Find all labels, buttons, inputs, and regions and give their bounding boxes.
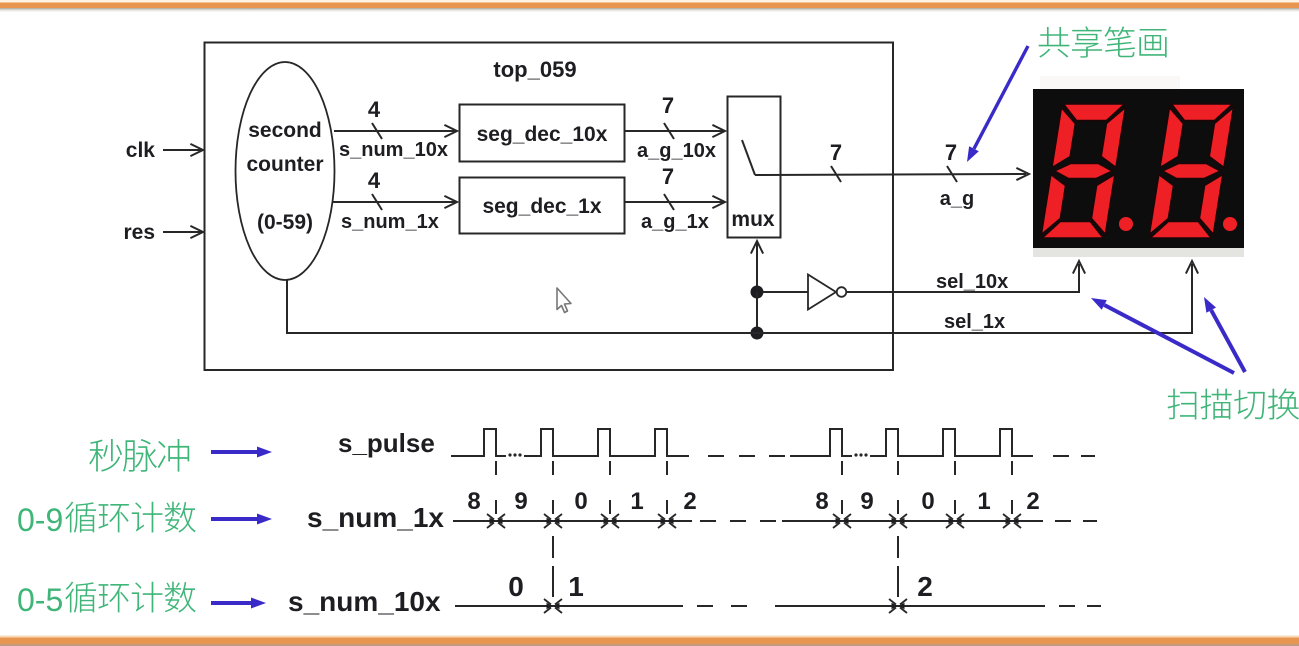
blue arrow to s_pulse [211,450,257,454]
svg-text:top_059: top_059 [493,57,576,82]
svg-text:sel_10x: sel_10x [936,271,1008,293]
decoder seg_dec_1x [460,178,625,234]
wire from counter bottom (sel_1x) [287,280,757,333]
waveform s_num_10x [455,605,1045,607]
svg-text:1: 1 [630,488,643,515]
wire sel_1x [757,264,1192,333]
svg-text:a_g: a_g [940,188,974,210]
svg-text:res: res [123,221,155,244]
svg-text:a_g_1x: a_g_1x [641,211,709,233]
svg-text:0-9: 0-9 [17,502,63,538]
mux switch lever [742,140,755,175]
svg-text:s_num_1x: s_num_1x [341,211,439,233]
svg-text:s_pulse: s_pulse [338,428,435,458]
svg-text:7: 7 [662,164,674,189]
svg-text:2: 2 [683,488,696,515]
display digit tens (8.) [1041,104,1126,238]
svg-text:mux: mux [731,208,775,231]
annotation 秒脉冲 (seconds pulse) [89,439,122,472]
svg-text:1: 1 [977,488,990,515]
waveform s_num_1x [453,520,1043,522]
svg-text:(0-59): (0-59) [257,211,313,234]
s_num_1x transition marks [487,514,505,528]
node junction sel_10x [751,286,764,299]
wire node to node [756,292,758,333]
svg-text:second: second [248,119,322,142]
wire bus s_num_1x [333,201,455,203]
s_pulse continuation dots [508,453,521,456]
svg-text:clk: clk [126,139,156,162]
blue arrow to ones digit pin [1211,310,1245,372]
svg-text:7: 7 [830,140,842,165]
blue arrow to tens digit pin [1104,305,1234,373]
svg-text:8: 8 [815,488,828,515]
svg-text:seg_dec_1x: seg_dec_1x [482,195,601,218]
annotation 共享笔画 (shared strokes) [1039,27,1070,58]
decoder seg_dec_10x [460,105,625,162]
wire bus a_g to display [755,174,1026,175]
inverter U2 (NOT gate) [808,275,836,310]
waveform s_pulse [451,429,1033,456]
wire bus a_g_1x [625,201,723,203]
svg-text:counter: counter [246,153,323,176]
svg-text:a_g_10x: a_g_10x [637,140,716,162]
module boundary top_059 [205,43,894,371]
display reflection [1040,76,1180,89]
wire mux select (up into mux) [756,243,758,292]
top orange bar [0,0,1299,3]
svg-text:2: 2 [1026,488,1039,515]
svg-text:7: 7 [662,93,674,118]
wire clk arrow [163,149,202,151]
dashed link 1x->10x at 898 [897,536,899,597]
svg-text:9: 9 [860,488,873,515]
wire sel_10x [847,264,1080,292]
wire bus s_num_10x [334,130,455,132]
annotation 扫描切换 (scan switching) [1168,389,1197,420]
wire res arrow [163,231,202,233]
display digit ones (8.) [1149,104,1234,238]
svg-text:0-5: 0-5 [17,582,63,618]
svg-text:1: 1 [568,571,584,602]
s_num_10x transition marks [544,599,562,613]
wire node to inverter [763,291,808,293]
7-segment display body [1033,89,1244,248]
svg-text:9: 9 [514,488,527,515]
wire bus a_g_10x [625,130,723,132]
tick marks at pulse falling edges [496,461,1012,514]
svg-text:0: 0 [921,488,934,515]
multiplexer mux [728,97,781,238]
svg-text:seg_dec_10x: seg_dec_10x [477,123,608,146]
svg-text:8: 8 [467,488,480,515]
blue arrow to s_num_10x [211,601,251,605]
node junction sel_1x [751,327,764,340]
svg-text:s_num_10x: s_num_10x [339,139,448,161]
svg-text:2: 2 [917,571,933,602]
svg-text:4: 4 [368,97,381,122]
s_pulse gap dashes [708,455,785,457]
bottom orange bar [0,636,1299,638]
blue arrow to s_num_1x [211,517,257,521]
mouse cursor [557,288,571,313]
svg-text:s_num_10x: s_num_10x [288,586,441,617]
svg-text:7: 7 [945,140,957,165]
svg-text:s_num_1x: s_num_1x [307,502,444,533]
second counter U1 (ellipse 0-59) [236,62,335,280]
svg-text:sel_1x: sel_1x [944,311,1005,333]
blue arrow to a_g wire [974,46,1028,149]
dashed link 1x->10x at 553 [552,536,554,597]
svg-text:0: 0 [574,488,587,515]
svg-text:0: 0 [508,571,524,602]
svg-text:4: 4 [368,168,381,193]
